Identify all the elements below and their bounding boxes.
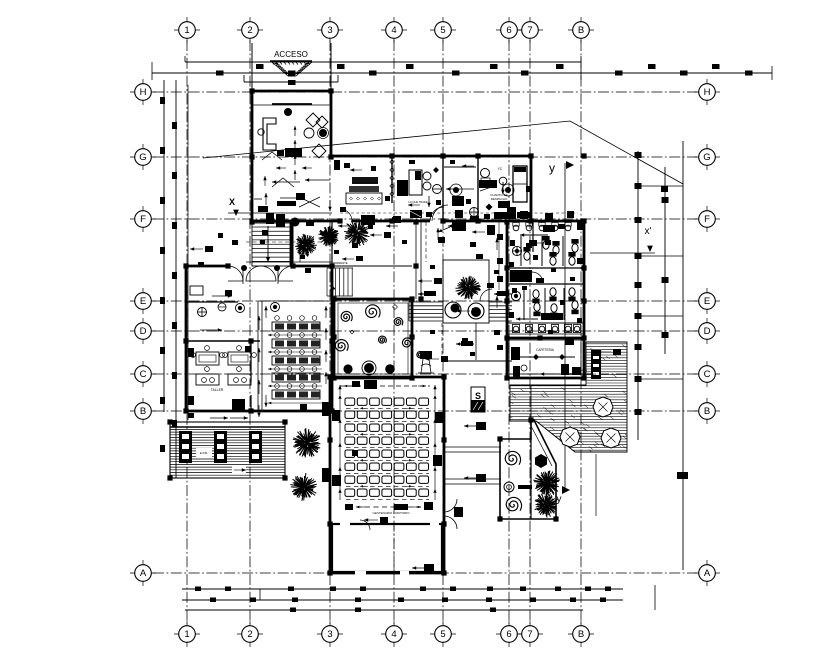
- top dimension line 1: [185, 61, 581, 63]
- grid bubble 2 bottom: [237, 621, 263, 647]
- grid bubble G right: [694, 144, 720, 170]
- right dimension line 3: [682, 141, 684, 570]
- lobby arrows: [254, 180, 305, 212]
- auditorium side annotations: [412, 422, 486, 572]
- bottom dimension line 2: [182, 599, 623, 601]
- grid axis line 4 vertical: [393, 40, 395, 624]
- grid axis line 2 vertical: [249, 40, 251, 624]
- svg-text:E: E: [140, 296, 146, 307]
- grid axis line 7 vertical: [529, 40, 531, 624]
- terrace hatch: [505, 341, 630, 453]
- right dimension line 2: [664, 167, 666, 354]
- svg-text:YC: YC: [498, 167, 503, 171]
- svg-text:y: y: [549, 161, 555, 175]
- top dimension line 2: [152, 72, 772, 74]
- grid bubble 5 bottom: [430, 621, 456, 647]
- partition wall room1/2 with diamonds: [390, 158, 394, 203]
- reception diamond furniture: [277, 113, 329, 158]
- svg-text:F: F: [140, 214, 146, 225]
- auditorium label: [364, 511, 410, 523]
- bottom dimension line 1: [182, 588, 623, 590]
- bathroom outer walls: [507, 222, 584, 338]
- classroom corridor arrow chain: [257, 316, 260, 417]
- lobby door blobs: [266, 213, 314, 227]
- top dimension line 3: [152, 56, 772, 82]
- svg-text:G: G: [139, 152, 146, 163]
- svg-text:C: C: [704, 369, 711, 380]
- courtyard tree 3: [344, 220, 369, 246]
- classroom tables: [264, 306, 327, 407]
- svg-text:CAFETERIA: CAFETERIA: [536, 348, 555, 352]
- grid bubble 4 top: [381, 17, 407, 43]
- bathroom mid walls: [507, 268, 584, 284]
- S box symbol: [471, 387, 485, 412]
- svg-text:1: 1: [184, 25, 189, 36]
- terrace planter dark: [591, 350, 601, 379]
- svg-text:F: F: [704, 214, 710, 225]
- bathroom extra marks: [522, 255, 582, 334]
- office 2 furniture: [397, 170, 474, 218]
- grid axis line D horizontal: [153, 330, 697, 332]
- cafeteria furniture: [509, 337, 581, 377]
- grid bubble G left: [130, 144, 156, 170]
- middle band right wall: [530, 156, 533, 222]
- auditorium aisle extra arrows: [338, 385, 436, 395]
- bottom dimension markers: [195, 587, 611, 613]
- left dimension markers: [160, 97, 177, 452]
- left wing double doors: [228, 265, 293, 284]
- svg-text:D: D: [140, 326, 147, 337]
- kiosk tree 2: [535, 493, 558, 517]
- grid axis line 3 vertical: [329, 40, 331, 624]
- courtyard dashed walks: [246, 222, 440, 266]
- svg-text:6: 6: [506, 629, 511, 640]
- bathroom left marks: [497, 222, 503, 290]
- section line diagonal: [203, 121, 683, 184]
- partition walls: [443, 158, 478, 221]
- office 4 furniture: [479, 166, 531, 219]
- grid bubble B left: [130, 398, 156, 424]
- kiosk hexagon: [535, 454, 547, 468]
- grid bubble B top: [568, 17, 594, 43]
- section marker y top: [549, 161, 574, 488]
- zen courtyard walls: [334, 299, 412, 378]
- stage: [332, 522, 442, 576]
- grid axis line 1 vertical: [186, 40, 188, 624]
- terrace table 3: [601, 428, 621, 448]
- svg-text:H: H: [140, 87, 147, 98]
- grid axis line B vertical: [580, 40, 582, 624]
- lobby extra arrows: [263, 166, 312, 186]
- middle band bottom wall: [252, 220, 584, 223]
- parking trees: [290, 428, 320, 501]
- section marker x-prime: [590, 226, 655, 253]
- grid bubble F right: [694, 206, 720, 232]
- grid bubble B bottom: [568, 621, 594, 647]
- right dimension markers: [635, 152, 689, 479]
- svg-text:G: G: [703, 152, 710, 163]
- grid bubble 7 top: [517, 17, 543, 43]
- grid axis line C horizontal: [153, 373, 697, 375]
- grid bubble F left: [130, 206, 156, 232]
- grid bubble C right: [694, 361, 720, 387]
- column markers: [167, 88, 586, 575]
- left dimension line 2: [175, 80, 177, 478]
- svg-text:B: B: [140, 406, 146, 417]
- grid bubble H right: [694, 79, 720, 105]
- auditorium walls: [330, 377, 444, 573]
- misc door arc courtyard: [480, 289, 492, 301]
- bathroom fixtures: [507, 222, 584, 334]
- grid bubble E left: [130, 288, 156, 314]
- top dimension markers: [216, 64, 753, 85]
- svg-text:DESPACHO: DESPACHO: [491, 197, 508, 201]
- grid axis line F horizontal: [153, 218, 697, 220]
- svg-text:X: X: [229, 197, 235, 207]
- svg-text:4: 4: [391, 629, 396, 640]
- section marker y bottom: [557, 486, 571, 505]
- zen garden spirals and stones: [335, 305, 424, 376]
- grid axis line 6 vertical: [508, 40, 510, 624]
- grid bubble B right: [694, 398, 720, 424]
- svg-text:CEREMONIAS PLANTEO: CEREMONIAS PLANTEO: [564, 372, 597, 376]
- middle band corridor blobs: [340, 207, 574, 225]
- reception chair circle: [284, 108, 292, 116]
- section marker X: [228, 197, 332, 216]
- room 3 furniture: [392, 167, 479, 223]
- grid bubble 1 top: [174, 17, 200, 43]
- reception desk: [258, 118, 276, 150]
- grid axis line H horizontal: [153, 91, 697, 93]
- grid axis line B horizontal: [153, 410, 697, 412]
- courtyard walkway verticals: [416, 222, 421, 299]
- grid bubble 3 bottom: [317, 621, 343, 647]
- svg-text:TALLER: TALLER: [211, 388, 224, 392]
- bottom dimension step: [260, 585, 655, 610]
- middle band extra marks: [340, 160, 490, 219]
- left wing bottom blobs: [188, 399, 307, 420]
- svg-text:D: D: [704, 326, 711, 337]
- kiosk walls: [500, 385, 556, 519]
- svg-text:S: S: [475, 391, 481, 401]
- svg-text:3: 3: [327, 629, 332, 640]
- svg-text:LO QUE TRADE: LO QUE TRADE: [408, 200, 428, 204]
- grid bubble D left: [130, 318, 156, 344]
- courtyard planter box: [443, 260, 489, 323]
- property boundary line: [187, 85, 189, 420]
- terrace walk edge: [595, 454, 597, 516]
- svg-text:B: B: [578, 629, 584, 640]
- grid axis line G horizontal: [153, 156, 697, 158]
- reception walls: [252, 91, 331, 222]
- svg-text:6: 6: [506, 25, 511, 36]
- office 1 furniture: [277, 160, 382, 211]
- courtyard stair upper: [327, 261, 353, 296]
- svg-text:A: A: [704, 568, 711, 579]
- courtyard stair mid: [409, 301, 512, 321]
- courtyard path lines: [246, 262, 412, 266]
- svg-text:2: 2: [247, 25, 252, 36]
- auditorium seats: [338, 380, 436, 510]
- svg-text:E: E: [704, 296, 710, 307]
- grid bubble 3 top: [317, 17, 343, 43]
- front steps: [252, 222, 294, 266]
- svg-text:7: 7: [527, 629, 532, 640]
- svg-text:2: 2: [247, 629, 252, 640]
- grid bubble 4 bottom: [381, 621, 407, 647]
- courtyard more blobs: [198, 230, 503, 362]
- courtyard upper arrows: [338, 224, 460, 227]
- grid axis line A horizontal: [153, 572, 697, 574]
- svg-text:1: 1: [184, 629, 189, 640]
- courtyard tree 2: [319, 226, 339, 246]
- right dimension ties: [638, 186, 683, 379]
- courtyard extra marks: [260, 225, 500, 356]
- svg-text:H: H: [704, 87, 711, 98]
- bottom dimension line 3: [185, 609, 583, 611]
- grid bubble 6 bottom: [496, 621, 522, 647]
- svg-text:ACCESO: ACCESO: [274, 50, 308, 59]
- svg-text:B: B: [704, 406, 710, 417]
- parking pergola with cars: [170, 422, 285, 478]
- kiosk tree 1: [533, 471, 560, 496]
- reception flow arrows: [294, 126, 297, 180]
- ACCESO label: [274, 50, 308, 59]
- grid bubble 2 top: [237, 17, 263, 43]
- svg-text:7: 7: [527, 25, 532, 36]
- svg-text:4: 4: [391, 25, 396, 36]
- grid bubble 5 top: [430, 17, 456, 43]
- courtyard tree 1: [295, 234, 317, 257]
- grid bubble 7 bottom: [517, 621, 543, 647]
- svg-text:E.P.M.: E.P.M.: [200, 451, 208, 455]
- svg-text:C: C: [140, 369, 147, 380]
- grid bubble H left: [130, 79, 156, 105]
- courtyard blobs: [190, 229, 621, 355]
- courtyard planters: [445, 302, 484, 319]
- cafeteria walls: [507, 338, 584, 378]
- bathroom entry arrows: [495, 238, 498, 308]
- terrace bottom label: [540, 368, 597, 376]
- kiosk spirals: [504, 451, 540, 510]
- svg-text:5: 5: [440, 25, 445, 36]
- auditorium door arcs: [360, 499, 463, 530]
- floor drains: [218, 303, 280, 313]
- grid bubble D right: [694, 318, 720, 344]
- terrace table 1: [593, 397, 613, 417]
- grid bubble C left: [130, 361, 156, 387]
- left dimension line 1: [163, 80, 165, 412]
- courtyard annotation arrows: [418, 222, 512, 346]
- svg-text:x': x': [645, 226, 652, 237]
- taller room furniture: [188, 286, 256, 405]
- corridor dashed line: [340, 212, 578, 214]
- lobby chevron: [262, 152, 294, 187]
- svg-text:B: B: [578, 25, 584, 36]
- acceso entrance symbol: [270, 61, 312, 77]
- reception wall extensions to dim line: [252, 43, 331, 91]
- corridor circles: [450, 184, 514, 196]
- grid bubble E right: [694, 288, 720, 314]
- left wing outer walls: [186, 266, 332, 411]
- svg-text:3: 3: [327, 25, 332, 36]
- grid axis line 5 vertical: [442, 40, 444, 624]
- svg-text:TORRENTE: TORRENTE: [332, 261, 347, 265]
- grid axis line E horizontal: [153, 300, 697, 302]
- grid bubble A right: [694, 560, 720, 586]
- grid bubble A left: [130, 560, 156, 586]
- middle band top wall: [331, 155, 531, 158]
- courtyard tree 4: [455, 276, 480, 299]
- left wing inner walls: [186, 301, 332, 411]
- auditorium corner blobs: [322, 402, 443, 510]
- courtyard lamp symbol: [418, 351, 434, 373]
- grid bubble 1 bottom: [174, 621, 200, 647]
- svg-text:A: A: [140, 568, 147, 579]
- grid bubble 6 top: [496, 17, 522, 43]
- right dimension line 1: [637, 151, 639, 440]
- terrace table 2: [560, 427, 580, 447]
- svg-text:CENTENARIO AUDITORIO: CENTENARIO AUDITORIO: [373, 511, 411, 515]
- svg-text:5: 5: [440, 629, 445, 640]
- courtyard walkway horizontals: [442, 323, 512, 484]
